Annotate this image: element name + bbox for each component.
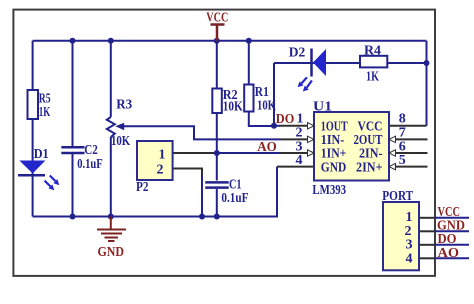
svg-text:R3: R3	[116, 97, 132, 112]
wire U1 pin4 stub	[277, 166, 314, 168]
U1 pin 2 arrow and number	[296, 126, 315, 143]
wire D2 anode to DO node	[273, 63, 275, 126]
svg-text:VCC: VCC	[206, 11, 228, 26]
wire top VCC rail	[33, 40, 427, 42]
junction GND node	[108, 214, 114, 220]
wire R1 branch	[249, 41, 274, 126]
junction R3 top	[108, 38, 114, 44]
wire U1 pin5 stub	[389, 166, 428, 168]
svg-text:10K: 10K	[257, 99, 276, 114]
LED D1	[18, 147, 49, 175]
svg-text:1K: 1K	[366, 70, 379, 85]
svg-text:P2: P2	[136, 180, 149, 195]
junction P2 pin2 bottom	[199, 214, 205, 220]
wire AO net label line	[435, 257, 470, 259]
svg-text:2: 2	[296, 126, 303, 141]
wire VCC net label line	[435, 217, 470, 219]
U1 pin 7 arrow and number	[389, 126, 406, 143]
svg-text:2: 2	[157, 163, 164, 178]
LED D2	[289, 46, 326, 77]
wire PORT pin4 stub	[419, 257, 435, 259]
svg-text:8: 8	[399, 112, 406, 127]
U1 pin 3 arrow and number	[296, 140, 315, 157]
wire AO net P2 pin1 to U1 pin3	[173, 152, 214, 154]
svg-text:10K: 10K	[223, 100, 243, 115]
capacitor C1	[205, 178, 248, 207]
ground symbol	[97, 217, 126, 260]
VCC power symbol	[206, 11, 228, 41]
junction C2 bottom	[70, 214, 76, 220]
svg-text:0.1uF: 0.1uF	[77, 157, 103, 172]
resistor R1	[244, 85, 276, 114]
svg-text:1: 1	[159, 148, 166, 163]
U1 pin 6 arrow and number	[389, 140, 406, 157]
svg-text:PORT: PORT	[382, 189, 413, 204]
wire R2/C1 branch	[216, 41, 218, 217]
wire D2/R4 row	[274, 62, 427, 64]
LED D1 emission arrows	[45, 176, 60, 191]
wire U1 pin8 stub	[389, 125, 427, 127]
wire R3 branch	[110, 41, 112, 217]
wire U1 pin6 stub	[389, 152, 428, 154]
junction R1 top	[246, 38, 252, 44]
resistor R3 potentiometer	[107, 97, 132, 149]
svg-text:C2: C2	[84, 143, 98, 158]
wire P2 pin2 to ground rail	[173, 169, 202, 177]
junction C2 top	[70, 38, 76, 44]
svg-text:LM393: LM393	[312, 183, 346, 198]
svg-text:AO: AO	[438, 246, 460, 261]
wire C2 branch	[72, 41, 74, 217]
capacitor C2	[61, 143, 102, 172]
U1 pin 5 arrow and number	[389, 153, 406, 170]
junction C1 bottom	[214, 214, 220, 220]
svg-text:AO: AO	[257, 140, 277, 155]
resistor R4	[360, 44, 387, 85]
svg-text:10K: 10K	[111, 134, 130, 149]
svg-text:1: 1	[406, 210, 413, 225]
svg-text:0.1uF: 0.1uF	[221, 191, 248, 206]
svg-text:DO: DO	[276, 112, 295, 127]
svg-text:2IN+: 2IN+	[356, 160, 383, 175]
junction DO node	[271, 123, 277, 129]
svg-text:GND: GND	[321, 160, 347, 175]
svg-text:1K: 1K	[39, 105, 51, 120]
wire R3 wiper to U1 pin2	[124, 126, 280, 139]
junction AO node	[214, 150, 220, 156]
svg-text:R4: R4	[364, 44, 381, 59]
connector PORT	[382, 189, 419, 270]
wire DO node to U1 pin1	[274, 125, 280, 127]
wire U1 pin7 stub	[389, 138, 428, 140]
svg-text:4: 4	[296, 153, 303, 168]
svg-text:4: 4	[406, 251, 413, 266]
wire PORT pin2 stub	[419, 230, 435, 232]
svg-text:3: 3	[406, 238, 413, 253]
svg-text:U1: U1	[313, 99, 332, 114]
wire VCC to pin8 vertical	[426, 41, 428, 126]
junction VCC/R2	[214, 38, 220, 44]
svg-text:1: 1	[297, 112, 304, 127]
junction R4/VCC vertical	[424, 60, 430, 66]
resistor R2	[212, 88, 242, 115]
LED D2 emission arrows	[298, 77, 312, 91]
wire left vertical (R5/D1 branch)	[32, 41, 34, 217]
svg-text:D2: D2	[289, 46, 306, 61]
svg-text:GND: GND	[98, 245, 125, 260]
U1 pin labels inside	[321, 120, 383, 176]
wire PORT pin1 stub	[419, 217, 435, 219]
wire bottom ground rail	[33, 167, 277, 217]
wire DO net label line	[435, 244, 470, 246]
U1 pin 1 arrow and number	[297, 112, 315, 130]
wire PORT pin3 stub	[419, 244, 435, 246]
connector P2	[136, 141, 173, 195]
op-amp U1 LM393	[312, 99, 389, 198]
svg-text:2: 2	[405, 224, 412, 239]
svg-text:D1: D1	[34, 147, 49, 162]
svg-text:5: 5	[399, 153, 406, 168]
wire GND net label line	[435, 230, 470, 232]
resistor R5	[28, 90, 51, 120]
svg-text:7: 7	[399, 126, 406, 141]
